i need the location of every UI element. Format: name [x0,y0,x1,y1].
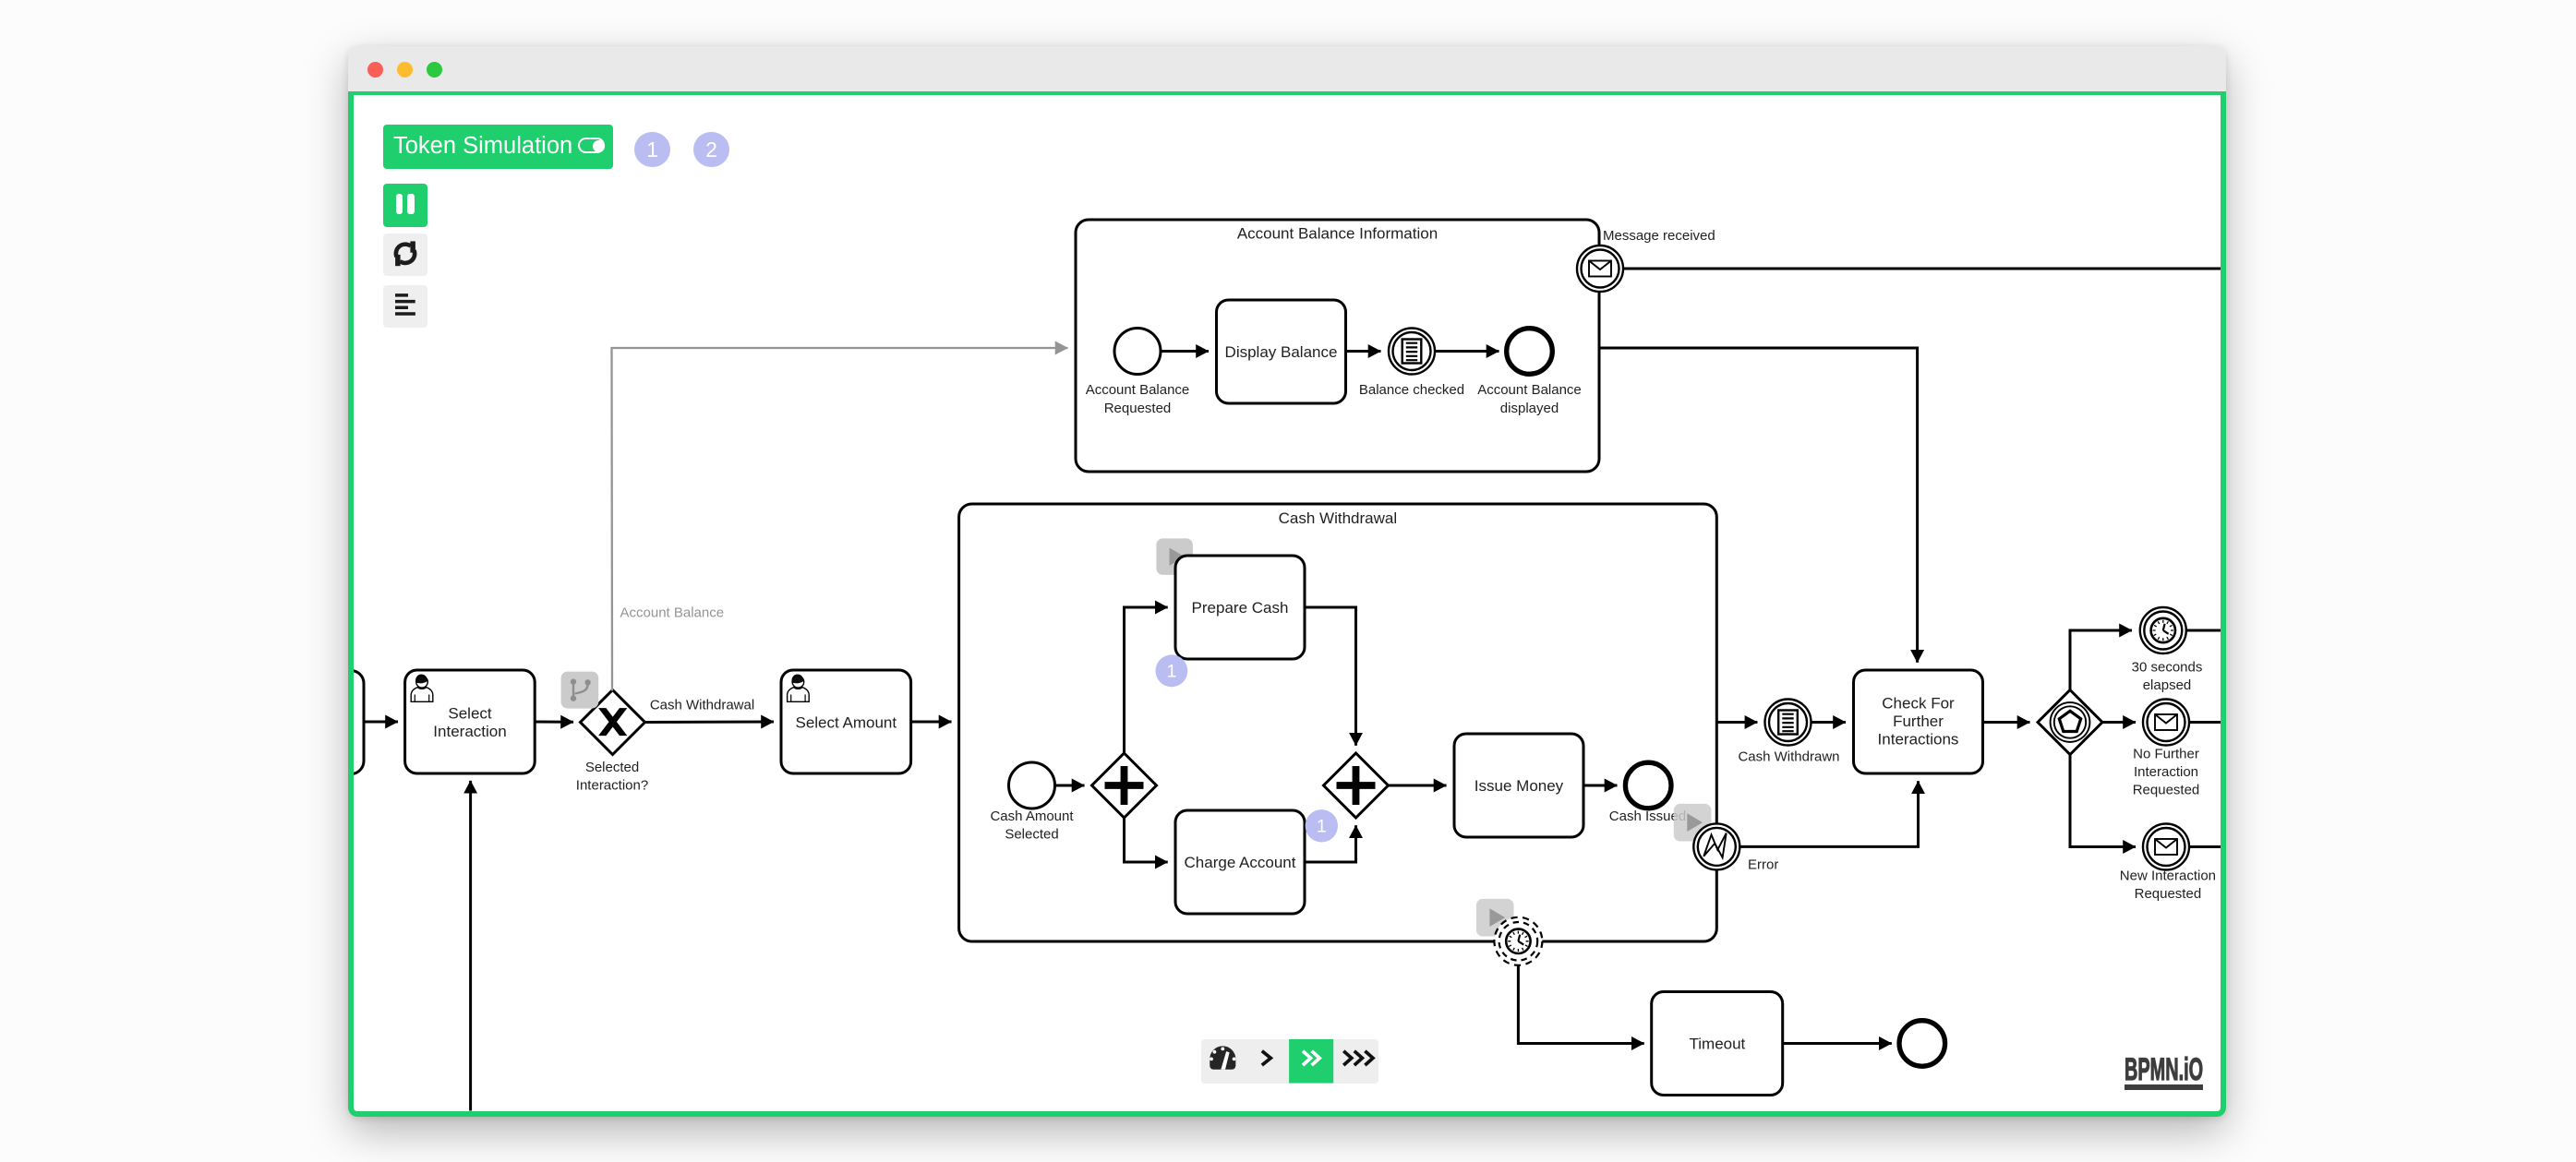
intermediate timer event 30 seconds elapsed [2132,607,2203,693]
fast speed chevrons [1343,1051,1373,1065]
boundary message event Message received [1577,228,1715,292]
svg-text:Selected: Selected [585,760,639,775]
svg-text:Charge Account: Charge Account [1185,854,1296,871]
svg-text:Account Balance: Account Balance [620,605,725,621]
wire gateway to Select Amount [645,721,775,725]
intermediate conditional event Cash Withdrawn [1738,700,1839,765]
badge 2 [693,132,729,168]
task Issue Money [1454,734,1583,837]
browser window [348,46,2226,1117]
gateway event-based [2038,690,2102,755]
wire gateway1 to Charge Account [1125,818,1168,862]
svg-text:1: 1 [1166,661,1176,681]
task (clipped at window edge) [231,671,364,774]
traffic light red [367,62,383,78]
play overlay on Prepare Cash [1156,538,1193,575]
wire event gateway to No Further Interaction Requested [2102,721,2136,724]
svg-text:Interaction: Interaction [433,723,506,740]
wire New Interaction Requested to window edge [2189,845,2221,848]
task Charge Account [1175,810,1305,914]
user icon Select Amount [788,675,810,702]
svg-text:Error: Error [1748,857,1778,873]
wire Cash Withdrawn to Check For Further Interactions [1812,721,1847,724]
reset button [383,234,427,277]
svg-text:Select: Select [448,704,492,722]
svg-text:Interaction: Interaction [2134,764,2198,780]
svg-text:Issue Money: Issue Money [1475,777,1564,795]
svg-text:30 seconds: 30 seconds [2132,660,2203,676]
svg-text:New Interaction: New Interaction [2120,868,2216,883]
traffic light yellow [397,62,413,78]
boundary timer event (non-interrupting) [1494,917,1542,965]
step chevron [1262,1051,1271,1065]
svg-text:Further: Further [1893,713,1944,730]
subprocess Account Balance Information [1076,220,1599,472]
boundary error event Error [1693,823,1778,872]
wire flow into Select Interaction [364,721,398,724]
svg-text:Account Balance: Account Balance [1086,382,1190,398]
log button [383,285,427,329]
wire Account Balance Information to Check For Further Interactions [1599,348,1918,663]
wire start to parallel gateway 1 [1055,785,1085,787]
pause-on-fork overlay icon [561,672,599,709]
svg-text:Cash Withdrawn: Cash Withdrawn [1738,749,1839,765]
active speed (green) [1289,1039,1333,1084]
svg-text:Requested: Requested [2135,886,2202,902]
wire Charge Account to parallel gateway 2 [1305,825,1356,862]
end event after Timeout [1899,1021,1945,1067]
svg-text:Select Amount: Select Amount [795,713,897,731]
svg-text:Account Balance Information: Account Balance Information [1237,225,1438,243]
end event Cash Issued [1609,762,1686,824]
subprocess Cash Withdrawal [959,504,1717,941]
task Prepare Cash [1175,556,1305,659]
wire timer to Timeout [1518,965,1643,1044]
svg-text:displayed: displayed [1500,401,1559,416]
wire Balance checked to end event [1435,350,1499,353]
start event Cash Amount Selected [990,762,1074,843]
wire Prepare Cash to parallel gateway 2 [1305,607,1356,746]
svg-text:Interaction?: Interaction? [576,778,648,794]
svg-text:Account Balance: Account Balance [1477,382,1582,398]
svg-text:Check For: Check For [1882,695,1955,713]
svg-text:Timeout: Timeout [1690,1036,1746,1053]
BPMN.iO logo [2125,1052,2208,1095]
svg-text:Requested: Requested [1104,401,1172,416]
svg-text:Cash Withdrawal: Cash Withdrawal [650,698,754,713]
svg-text:Selected: Selected [1005,827,1058,843]
wire event gateway to New Interaction Requested [2070,755,2136,847]
badge 1 [634,132,670,168]
wire Message received to window edge [1623,268,2221,270]
traffic light green [427,62,442,78]
gateway parallel join [1324,753,1389,818]
wire Select Amount to Cash Withdrawal subprocess [911,721,952,724]
user icon Select Interaction [411,675,433,702]
play overlay near timer boundary [1476,899,1514,937]
svg-text:Balance checked: Balance checked [1359,382,1464,398]
task Check For Further Interactions [1854,670,1983,773]
gateway Selected Interaction? (exclusive) [576,690,648,794]
wire start to Display Balance [1161,350,1209,353]
wire event gateway to 30 seconds elapsed [2070,630,2132,690]
Token Simulation toggle button [383,125,613,169]
start event Account Balance Requested [1086,329,1190,416]
svg-text:Cash Withdrawal: Cash Withdrawal [1279,509,1398,527]
wire Display Balance to Balance checked [1346,350,1381,353]
gateway parallel split [1092,753,1157,818]
wire Timeout to end event [1783,1042,1892,1045]
intermediate conditional event Balance checked [1359,329,1464,399]
pause button [383,184,427,227]
wire Cash Withdrawal to Cash Withdrawn [1716,721,1757,724]
svg-text:Display Balance: Display Balance [1225,343,1338,361]
play overlay near error event [1674,804,1712,842]
wire 30 seconds elapsed to window edge [2186,629,2221,632]
svg-text:Message received: Message received [1603,228,1715,244]
token badge 1 near gateway 2 [1306,809,1338,842]
svg-text:Interactions: Interactions [1878,731,1959,749]
task Select Amount [781,670,911,773]
wire Check For Further Interactions to event gateway [1983,721,2030,724]
task Select Interaction [405,670,536,773]
wire Select Interaction to gateway [535,721,573,724]
wire gray flow gateway to Account Balance Information [612,348,1068,691]
wire Issue Money to Cash Issued [1583,785,1618,787]
svg-text:Prepare Cash: Prepare Cash [1192,599,1289,617]
svg-text:No Further: No Further [2133,747,2199,762]
end event Account Balance displayed [1477,329,1582,416]
speedometer icon [1210,1046,1235,1069]
svg-text:Requested: Requested [2133,783,2200,798]
svg-text:1: 1 [1317,816,1327,836]
svg-text:Cash Amount: Cash Amount [990,809,1074,824]
wire error event to Check For Further Interactions [1739,781,1918,846]
token badge 1 on Prepare Cash [1156,654,1188,687]
wire gateway2 to Issue Money [1389,785,1447,787]
wire No Further Interaction Requested to window edge [2189,721,2221,724]
task Display Balance [1217,300,1346,403]
task Timeout [1652,992,1783,1096]
svg-text:elapsed: elapsed [2143,677,2192,693]
wire loop from bottom into Select Interaction [469,781,472,1111]
intermediate message event No Further Interaction Requested [2133,700,2200,798]
wire gateway1 to Prepare Cash [1125,607,1168,753]
intermediate message event New Interaction Requested [2120,824,2216,902]
playback speed control bar [1201,1039,1378,1084]
